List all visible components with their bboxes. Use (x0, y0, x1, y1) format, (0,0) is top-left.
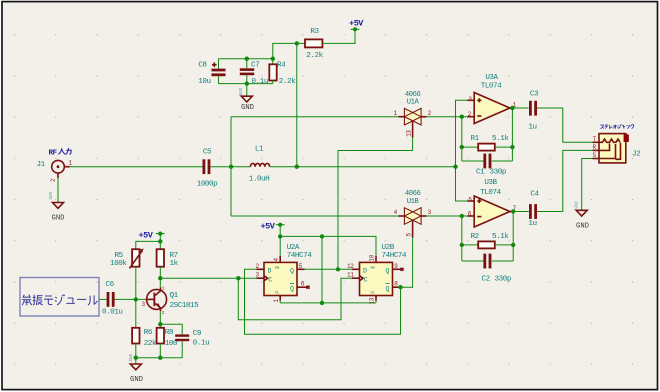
svg-text:C3: C3 (530, 91, 539, 99)
wire node D to R3 (297, 42, 305, 44)
wire node C up to U3A plus input (456, 100, 468, 166)
wire C3 to jack T (537, 108, 593, 142)
inductor L1 (250, 163, 269, 166)
svg-text:0.1u: 0.1u (193, 340, 209, 348)
svg-text:Q1: Q1 (170, 292, 179, 300)
svg-text:+5V: +5V (139, 231, 154, 241)
svg-text:J1: J1 (37, 161, 46, 169)
junction node O (U3B output) (511, 209, 515, 213)
wire C7 top lead (246, 59, 248, 69)
svg-text:+5V: +5V (349, 19, 364, 29)
svg-text:Q: Q (386, 267, 390, 274)
sheet 発振モジュール (oscillator module) (20, 278, 99, 317)
wire U2A preset drop (279, 236, 281, 256)
svg-text:1u: 1u (528, 124, 536, 132)
wire R7 bottom to collector node (159, 267, 161, 279)
wire U1B pin3 to U3B minus input (426, 215, 467, 217)
wire C4 to jack R (537, 150, 593, 211)
svg-text:R7: R7 (170, 252, 178, 260)
resistor R7 (157, 249, 164, 267)
svg-text:+5V: +5V (261, 222, 276, 232)
capacitor C3 (529, 101, 537, 116)
wire U2A clear lead (279, 296, 281, 303)
wire bottom rail C8 C7 R4 (219, 83, 273, 85)
wire clock branch to U2B clock (238, 278, 352, 320)
svg-text:5.1k: 5.1k (492, 135, 509, 143)
wire +5V to R5 top (136, 241, 161, 249)
ground symbol at bias block (240, 87, 252, 102)
analog switch U1A (4066) (399, 108, 427, 137)
svg-text:1000p: 1000p (197, 181, 218, 189)
ground symbol at J2 (575, 201, 587, 217)
svg-text:D: D (363, 267, 367, 274)
junction collector node (158, 276, 162, 280)
svg-text:L1: L1 (255, 146, 264, 154)
svg-text:U1A: U1A (407, 99, 420, 107)
svg-text:Q: Q (290, 285, 294, 292)
wire node A up row to U1A pin1 (231, 116, 399, 118)
capacitor C4 (529, 204, 537, 219)
wire C2 left lead (462, 260, 484, 262)
svg-text:C4: C4 (530, 191, 539, 199)
svg-text:GND: GND (52, 215, 65, 223)
wire sheet to C6 (99, 298, 107, 300)
junction node AA (U2B Qbar) (398, 285, 402, 289)
svg-text:1u: 1u (528, 220, 536, 228)
junction R1 left (460, 145, 464, 149)
resistor R3 (305, 39, 322, 47)
svg-text:10: 10 (369, 254, 376, 261)
junction node L (U3B minus) (460, 214, 464, 218)
label ステレオジャック (600, 124, 633, 128)
svg-text:74HC74: 74HC74 (382, 252, 408, 260)
svg-text:2.2k: 2.2k (306, 52, 323, 60)
wire R7 top lead (159, 241, 161, 249)
capacitor C8 polarized (212, 62, 226, 76)
svg-text:GND: GND (130, 353, 134, 361)
wire C9 bottom to rail (160, 341, 182, 358)
wire +5V to preset rail (279, 225, 281, 237)
svg-text:1.0uH: 1.0uH (249, 176, 270, 184)
wire J1 pin1 to C5 (70, 166, 203, 168)
wire U3A minus down to feedback (461, 117, 463, 161)
label RF入力 (49, 148, 72, 158)
op-amp U3A TL074 (467, 93, 514, 124)
svg-text:330p: 330p (495, 276, 512, 284)
junction +5V divider (158, 239, 162, 243)
wire U3A output to C3 (515, 107, 529, 109)
svg-text:R3: R3 (310, 28, 319, 36)
svg-text:2.2k: 2.2k (279, 78, 296, 86)
svg-text:C9: C9 (193, 330, 202, 338)
wire R3 to +5V (322, 31, 355, 43)
resistor R5 (variable) (130, 248, 144, 268)
capacitor C9 (175, 334, 189, 341)
svg-text:GND: GND (130, 376, 143, 384)
resistor R2 (478, 241, 495, 248)
capacitor C7 (240, 68, 254, 75)
svg-text:1k: 1k (170, 260, 179, 268)
junction rail R8 (158, 356, 162, 360)
capacitor C1 (483, 154, 491, 169)
svg-text:U3A: U3A (485, 74, 498, 82)
svg-text:R1: R1 (471, 135, 480, 143)
svg-text:74HC74: 74HC74 (287, 252, 313, 260)
svg-text:GND: GND (50, 191, 54, 199)
wire emitter down (159, 311, 161, 324)
svg-text:10u: 10u (198, 78, 210, 86)
resistor R6 (132, 328, 139, 344)
ground symbol at oscillator (130, 353, 141, 369)
junction node C (453, 165, 457, 169)
junction preset rail mid (320, 234, 324, 238)
svg-text:TL074: TL074 (480, 189, 501, 197)
wire C7 bottom lead (246, 75, 248, 83)
wire node D left to R4 branch (273, 43, 297, 64)
svg-text:C: C (268, 276, 272, 283)
svg-text:C5: C5 (203, 149, 212, 157)
junction R2 left (460, 243, 464, 247)
wire C1 right lead (492, 160, 513, 162)
junction node G (C7 bottom / gnd) (245, 81, 249, 85)
svg-text:13: 13 (406, 130, 413, 137)
svg-text:U2A: U2A (287, 244, 300, 252)
junction R1 right (510, 145, 514, 149)
wire node B to node C (297, 166, 456, 168)
svg-text:R2: R2 (471, 233, 480, 241)
svg-text:0.1u: 0.1u (252, 78, 268, 86)
analog switch U1B (4066) (399, 208, 427, 238)
svg-text:R6: R6 (144, 329, 153, 337)
wire C6 to Q1 base (115, 298, 147, 300)
wire U2A Q to U2B D (305, 268, 353, 270)
svg-text:C1: C1 (476, 168, 485, 176)
junction rail R6 (134, 356, 138, 360)
svg-text:13: 13 (369, 297, 376, 304)
junction R2 right (511, 243, 515, 247)
junction node K (U3A output) (510, 106, 514, 110)
capacitor C6 (107, 292, 115, 307)
wire R8 bottom lead (159, 344, 161, 358)
wire U3B minus down to feedback (461, 216, 463, 261)
wire R2 left lead (462, 244, 478, 246)
svg-text:R5: R5 (115, 252, 124, 260)
wire J1 pin2 to ground (57, 178, 59, 203)
wire R2 right lead (495, 244, 513, 246)
wire preset to clear tie (321, 236, 323, 303)
wire clock line from Q1 collector (160, 277, 256, 279)
wire C5 to node A (210, 166, 231, 168)
wire U1B pin4 row (231, 215, 399, 217)
wire R1 right lead (495, 146, 513, 148)
junction node H (U3A minus) (460, 115, 464, 119)
svg-text:C8: C8 (198, 61, 207, 69)
resistor R4 (269, 64, 276, 80)
junction node B (295, 165, 299, 169)
wire node G to ground (246, 84, 248, 97)
svg-text:C6: C6 (106, 281, 115, 289)
flip-flop U2A (74HC74) (257, 256, 310, 301)
wire U3B output to C4 (515, 211, 529, 213)
wire U1B pin5 down to U2B Qbar node (399, 238, 413, 288)
junction emitter node (158, 322, 162, 326)
wire node B up to node D (296, 43, 298, 166)
svg-text:GND: GND (240, 87, 244, 95)
svg-text:J2: J2 (632, 151, 641, 159)
svg-text:0.01u: 0.01u (102, 309, 123, 317)
wire emitter node to R8 (159, 324, 161, 328)
connector J1 (RF input BNC) (52, 160, 70, 178)
wire node C down to U3B plus input (456, 167, 468, 201)
svg-text:RF: RF (49, 150, 58, 158)
svg-text:330p: 330p (490, 168, 507, 176)
wire U1A pin13 to U2A Q (338, 138, 413, 270)
svg-text:100k: 100k (110, 260, 127, 268)
power symbol +5V (flip-flops) (276, 223, 285, 227)
svg-text:4066: 4066 (405, 91, 421, 99)
svg-text:TL074: TL074 (481, 83, 502, 91)
transistor Q1 2SC1815 (147, 288, 167, 312)
wire node A down to U1B pin4 row (230, 117, 232, 216)
resistor R1 (478, 144, 495, 151)
svg-text:D: D (268, 267, 272, 274)
junction base node (134, 297, 138, 301)
svg-text:GND: GND (241, 104, 254, 112)
junction preset rail left (278, 234, 282, 238)
flip-flop U2B (74HC74) (352, 256, 404, 301)
svg-text:C2: C2 (482, 276, 491, 284)
svg-text:11: 11 (347, 272, 354, 279)
capacitor C5 (203, 159, 211, 174)
svg-text:GND: GND (575, 201, 579, 209)
junction clear rail mid (320, 301, 324, 305)
svg-text:12: 12 (347, 263, 354, 270)
svg-text:Q: Q (386, 285, 390, 292)
junction node Z (U2A Q to U1A ctl) (336, 267, 340, 271)
wire emitter node to C9 (160, 324, 182, 334)
wire U1A pin2 to U3A minus input (426, 116, 467, 118)
wire node A to L1 (231, 166, 250, 168)
wire C2 right lead (492, 260, 513, 262)
wire rail to ground (135, 358, 137, 364)
svg-text:C: C (364, 276, 368, 283)
wire U2A D cross-coupling from U2B Qbar (245, 269, 401, 334)
svg-text:5.1k: 5.1k (492, 233, 509, 241)
svg-text:U1B: U1B (407, 198, 420, 206)
wire collector to clock node (159, 278, 161, 287)
svg-text:4066: 4066 (405, 190, 421, 198)
svg-text:22k: 22k (144, 340, 157, 348)
connector J2 stereo jack (593, 134, 629, 163)
op-amp U3B TL074 (467, 196, 514, 227)
wire C8 top lead (218, 59, 220, 69)
svg-text:U3B: U3B (484, 179, 497, 187)
wire R5 down to base node (135, 267, 137, 328)
svg-text:U2B: U2B (382, 244, 395, 252)
wire clear rail (280, 302, 376, 304)
junction node E (R4 top) (271, 57, 275, 61)
wire J2 sleeve to ground (582, 159, 593, 211)
junction node A (229, 165, 233, 169)
ground symbol at J1 (50, 191, 63, 208)
power symbol +5V (top) (351, 27, 360, 31)
junction node F (C7 top) (245, 57, 249, 61)
wire R1 left lead (462, 146, 478, 148)
wire R4 bottom lead (272, 81, 274, 84)
svg-text:R4: R4 (277, 61, 286, 69)
svg-text:2SC1815: 2SC1815 (170, 302, 200, 310)
wire top rail C8 C7 R4 (219, 58, 273, 60)
wire U3A output down to feedback (511, 108, 513, 161)
svg-text:C7: C7 (251, 62, 259, 70)
svg-text:GND: GND (576, 223, 589, 231)
resistor R8 (157, 328, 164, 344)
wire C8 bottom lead (218, 76, 220, 83)
capacitor C2 (483, 254, 491, 269)
wire C1 left lead (462, 160, 484, 162)
junction clock branch (236, 276, 240, 280)
wire +5V stem to divider (159, 234, 161, 242)
junction node D (295, 41, 299, 45)
wire U3B output down to feedback (512, 212, 514, 262)
svg-text:Q: Q (290, 267, 294, 274)
wire L1 to node B (270, 166, 297, 168)
svg-text:R8: R8 (165, 329, 174, 337)
wire emitter ground rail (136, 357, 161, 359)
wire R6 bottom lead (135, 344, 137, 358)
wire preset rail (280, 236, 376, 256)
wire U2B clear lead (375, 296, 377, 303)
power symbol +5V (oscillator) (156, 232, 165, 236)
